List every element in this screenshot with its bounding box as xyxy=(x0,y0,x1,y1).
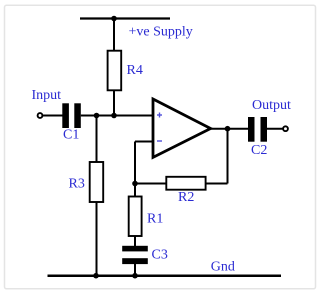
svg-text:Input: Input xyxy=(32,88,62,103)
wire op-amp output xyxy=(211,128,249,130)
node R4/input junction xyxy=(111,113,117,119)
wire feedback vertical xyxy=(227,129,229,184)
capacitor C2 xyxy=(248,117,267,158)
wire +ve supply rail xyxy=(80,17,170,19)
svg-text:+ve Supply: +ve Supply xyxy=(129,25,193,40)
svg-text:C2: C2 xyxy=(251,143,267,158)
wire R2 right lead xyxy=(206,183,228,185)
node R3/ground junction xyxy=(93,273,99,279)
node C3/ground junction xyxy=(132,273,138,279)
wire R1 top lead xyxy=(134,184,136,198)
wire R3 top lead xyxy=(96,116,98,163)
node output junction xyxy=(225,126,231,132)
node supply/R4 junction xyxy=(111,16,117,22)
svg-text:Gnd: Gnd xyxy=(211,259,235,274)
wire ground rail xyxy=(48,274,282,277)
wire input terminal to C1 xyxy=(43,115,63,117)
svg-text:R2: R2 xyxy=(178,190,194,205)
wire C2 to output terminal xyxy=(267,128,283,130)
wire inverting branch vertical xyxy=(134,142,136,184)
svg-text:R3: R3 xyxy=(69,177,85,192)
svg-text:R4: R4 xyxy=(127,63,143,78)
wire R1 bottom lead xyxy=(134,236,136,247)
wire C3 bottom stub xyxy=(134,264,136,276)
input terminal xyxy=(38,113,43,118)
op-amp U1 xyxy=(153,99,211,157)
wire R3 bottom lead xyxy=(96,202,98,276)
resistor R2 xyxy=(166,177,205,205)
svg-text:R1: R1 xyxy=(147,211,163,226)
node C1/R3 junction xyxy=(94,113,100,119)
svg-text:C3: C3 xyxy=(152,248,168,263)
svg-text:C1: C1 xyxy=(63,128,79,143)
svg-text:Output: Output xyxy=(252,98,291,113)
output terminal xyxy=(283,126,288,131)
node R1/R2 junction xyxy=(132,181,138,187)
resistor R4 xyxy=(108,51,143,91)
wire R4 top lead xyxy=(113,19,115,53)
wire C1 to op-amp non-inverting input xyxy=(81,115,153,117)
capacitor C1 xyxy=(62,103,81,142)
wire op-amp inverting input xyxy=(135,141,153,143)
resistor R1 xyxy=(129,197,164,237)
wire R4 bottom lead xyxy=(113,90,115,115)
wire R2 left lead xyxy=(135,183,167,185)
resistor R3 xyxy=(69,162,104,202)
capacitor C3 xyxy=(122,246,168,264)
